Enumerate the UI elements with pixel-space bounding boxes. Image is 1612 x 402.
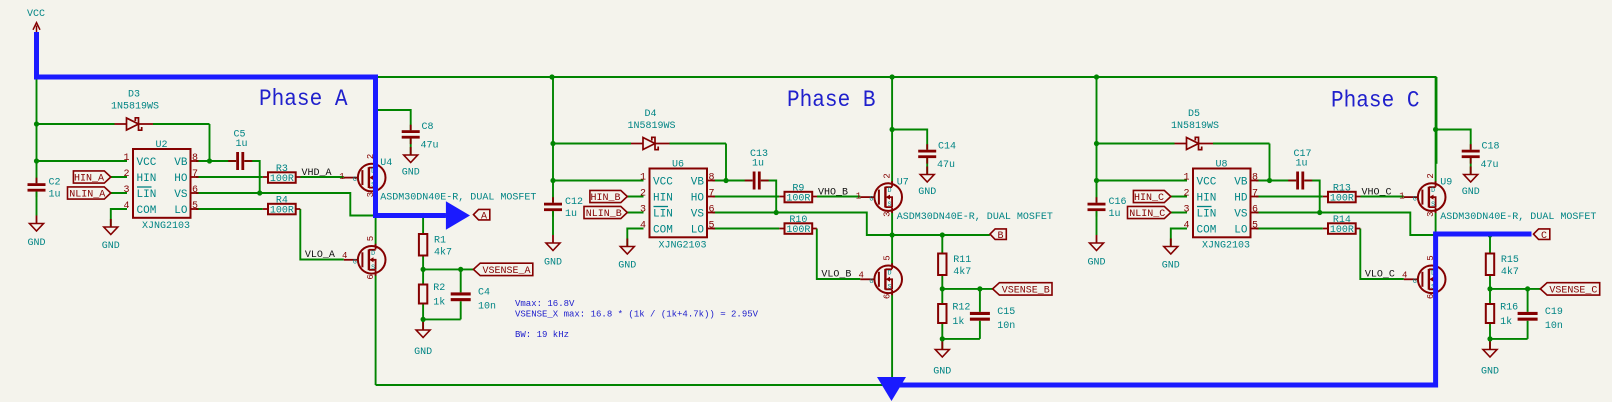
svg-text:GND: GND <box>102 241 120 252</box>
wire <box>1489 235 1491 254</box>
svg-text:1u: 1u <box>49 190 61 201</box>
IC U6 XJNG2103 <box>640 160 715 252</box>
IC U2 XJNG2103 <box>123 140 198 232</box>
svg-text:D: D <box>1431 187 1435 194</box>
svg-text:D: D <box>371 250 375 257</box>
ground <box>918 167 936 199</box>
wire <box>1436 130 1471 150</box>
junction <box>257 190 262 195</box>
svg-text:1: 1 <box>123 153 129 164</box>
svg-text:8: 8 <box>1252 173 1258 184</box>
ground <box>618 239 636 272</box>
mosfet U9 low side <box>1402 255 1446 299</box>
svg-text:5: 5 <box>192 201 198 212</box>
wire <box>1360 229 1404 280</box>
resistor R9 100R <box>779 184 817 205</box>
svg-text:ASDM30DN40E-R, DUAL MOSFET: ASDM30DN40E-R, DUAL MOSFET <box>897 212 1053 223</box>
wire <box>376 110 411 130</box>
resistor R1 4k7 <box>419 234 452 258</box>
junction <box>549 74 554 79</box>
junction <box>940 286 945 291</box>
svg-text:VCC: VCC <box>27 9 45 20</box>
svg-text:VCC: VCC <box>653 177 673 189</box>
svg-text:LIN: LIN <box>653 209 673 221</box>
wire <box>1435 77 1437 183</box>
wire <box>1256 180 1296 182</box>
svg-text:G: G <box>1413 196 1417 203</box>
svg-text:GND: GND <box>618 261 636 272</box>
svg-text:1k: 1k <box>952 316 964 328</box>
wire switch node <box>376 215 449 217</box>
wire <box>1256 213 1436 236</box>
wire <box>196 160 236 162</box>
svg-text:VS: VS <box>174 189 188 201</box>
svg-text:1: 1 <box>1183 173 1189 184</box>
svg-text:C18: C18 <box>1482 142 1500 153</box>
wire <box>423 268 473 270</box>
svg-text:GND: GND <box>402 168 420 179</box>
svg-text:Phase A: Phase A <box>259 86 348 112</box>
svg-text:C14: C14 <box>938 142 956 153</box>
svg-text:Phase B: Phase B <box>787 87 876 113</box>
junction <box>1094 178 1099 183</box>
svg-text:C15: C15 <box>997 307 1015 318</box>
svg-text:3: 3 <box>882 211 892 216</box>
junction <box>1267 178 1272 183</box>
capacitor C8 47u bulk <box>402 122 439 152</box>
svg-text:1: 1 <box>640 173 646 184</box>
ground <box>544 235 562 269</box>
svg-text:LO: LO <box>174 205 188 217</box>
svg-text:COM: COM <box>653 225 673 237</box>
svg-text:LO: LO <box>1234 225 1248 237</box>
svg-text:HIN_C: HIN_C <box>1134 193 1164 204</box>
svg-text:VSENSE_A: VSENSE_A <box>482 266 530 277</box>
wire GND return bus <box>376 384 1436 386</box>
svg-text:5: 5 <box>709 221 715 232</box>
svg-text:U4: U4 <box>380 158 392 169</box>
svg-text:GND: GND <box>1162 261 1180 272</box>
wire <box>761 181 776 213</box>
wire <box>423 304 461 331</box>
output flag B <box>990 229 1006 242</box>
svg-text:ASDM30DN40E-R, DUAL MOSFET: ASDM30DN40E-R, DUAL MOSFET <box>1440 212 1596 223</box>
wire <box>111 209 127 227</box>
wire <box>817 196 860 198</box>
wire <box>627 196 643 198</box>
mosfet U7 low side <box>858 255 902 299</box>
svg-text:U8: U8 <box>1215 160 1227 171</box>
svg-text:6: 6 <box>192 185 198 196</box>
svg-text:ASDM30DN40E-R, DUAL MOSFET: ASDM30DN40E-R, DUAL MOSFET <box>380 193 536 204</box>
svg-text:VS: VS <box>1234 209 1248 221</box>
wire <box>1490 323 1528 350</box>
wire <box>111 192 127 194</box>
wire <box>892 130 927 150</box>
wire <box>891 211 893 266</box>
wire <box>553 144 726 181</box>
svg-text:LO: LO <box>691 225 705 237</box>
wire switch node <box>892 234 990 236</box>
svg-text:100R: 100R <box>1330 225 1354 236</box>
wire <box>1305 181 1320 213</box>
svg-text:1N5819WS: 1N5819WS <box>111 102 159 113</box>
capacitor C15 10n <box>970 307 1015 332</box>
svg-text:U6: U6 <box>672 160 684 171</box>
capacitor C17 1u bootstrap <box>1288 149 1312 190</box>
wire <box>553 180 644 182</box>
wire <box>941 235 943 254</box>
svg-text:D: D <box>888 187 892 194</box>
resistor R10 100R <box>779 215 817 236</box>
junction <box>977 286 982 291</box>
junction <box>940 336 945 341</box>
svg-text:U9: U9 <box>1440 177 1452 188</box>
wire <box>196 176 263 178</box>
svg-text:1: 1 <box>856 192 861 202</box>
junction <box>1433 127 1438 132</box>
svg-text:D5: D5 <box>1188 109 1200 120</box>
svg-text:100R: 100R <box>270 174 294 185</box>
wire <box>942 288 992 290</box>
svg-text:S: S <box>888 201 892 208</box>
resistor R2 1k <box>419 283 445 309</box>
ground <box>414 322 432 358</box>
wire <box>1470 158 1472 175</box>
wire <box>891 293 893 385</box>
svg-text:1N5819WS: 1N5819WS <box>1171 121 1219 132</box>
wire <box>1489 275 1491 304</box>
svg-text:VSENSE_C: VSENSE_C <box>1549 286 1597 297</box>
svg-text:6: 6 <box>1252 205 1258 216</box>
svg-text:10n: 10n <box>478 301 496 312</box>
svg-text:100R: 100R <box>270 206 294 217</box>
ground <box>102 219 120 252</box>
junction <box>890 127 895 132</box>
svg-text:VB: VB <box>1234 177 1248 189</box>
global label HIN_A <box>73 171 110 185</box>
svg-text:47u: 47u <box>421 141 439 152</box>
wire <box>37 124 210 161</box>
svg-text:XJNG2103: XJNG2103 <box>142 221 190 232</box>
junction <box>1094 74 1099 79</box>
resistor R16 1k <box>1486 302 1518 328</box>
capacitor C13 1u bootstrap <box>745 149 769 190</box>
wire <box>891 77 893 183</box>
wire switch node <box>1436 234 1530 236</box>
junction <box>550 178 555 183</box>
resistor R14 100R <box>1323 215 1361 236</box>
svg-text:G: G <box>1413 278 1417 285</box>
resistor R15 4k7 <box>1486 254 1519 278</box>
svg-text:NLIN_A: NLIN_A <box>69 190 105 201</box>
global label VSENSE_B <box>993 283 1052 297</box>
svg-text:1N5819WS: 1N5819WS <box>627 121 675 132</box>
svg-text:LIN: LIN <box>1197 209 1217 221</box>
junction <box>940 232 945 237</box>
junction <box>34 158 39 163</box>
svg-text:BW: 19 kHz: BW: 19 kHz <box>515 330 569 340</box>
wire <box>713 180 753 182</box>
wire <box>713 213 893 236</box>
svg-text:XJNG2103: XJNG2103 <box>658 241 706 252</box>
svg-text:5: 5 <box>1252 221 1258 232</box>
diode D4 1N5819WS <box>627 109 675 150</box>
global label HIN_C <box>1133 190 1170 204</box>
svg-text:5: 5 <box>882 255 892 260</box>
svg-text:VB: VB <box>174 157 188 169</box>
svg-text:1u: 1u <box>752 159 764 170</box>
svg-text:S: S <box>371 264 375 271</box>
mosfet U4 high side (ASDM30DN40E-R) <box>339 154 536 204</box>
svg-text:C2: C2 <box>49 178 61 189</box>
wire <box>1171 196 1187 198</box>
svg-text:HD: HD <box>1234 193 1248 205</box>
svg-text:D: D <box>888 269 892 276</box>
svg-text:C: C <box>1541 231 1547 242</box>
global label NLIN_B <box>584 206 627 220</box>
svg-text:VHO_C: VHO_C <box>1362 188 1392 199</box>
capacitor C18 47u bulk <box>1462 142 1500 172</box>
svg-text:U2: U2 <box>155 140 167 151</box>
svg-text:1k: 1k <box>1500 316 1512 328</box>
junction <box>458 267 463 272</box>
svg-text:10n: 10n <box>997 321 1015 332</box>
mosfet U7 high side (ASDM30DN40E-R) <box>856 173 1053 223</box>
junction <box>890 232 895 237</box>
mosfet U9 high side (ASDM30DN40E-R) <box>1399 173 1596 223</box>
capacitor C14 47u bulk <box>918 142 956 172</box>
ground <box>402 147 420 179</box>
svg-text:GND: GND <box>27 238 45 249</box>
svg-text:GND: GND <box>1481 367 1499 378</box>
diode D5 1N5819WS <box>1171 109 1219 150</box>
svg-text:HIN_A: HIN_A <box>74 174 104 185</box>
svg-text:VCC: VCC <box>1197 177 1217 189</box>
wire <box>410 138 412 155</box>
junction <box>1487 336 1492 341</box>
wire <box>301 176 344 178</box>
junction <box>1094 141 1099 146</box>
svg-text:R16: R16 <box>1500 302 1518 313</box>
junction <box>34 121 39 126</box>
svg-text:G: G <box>869 278 873 285</box>
output flag A <box>474 209 490 222</box>
svg-text:1: 1 <box>339 172 344 182</box>
svg-text:G: G <box>869 196 873 203</box>
wire <box>111 176 127 178</box>
svg-text:C8: C8 <box>422 122 434 133</box>
wire <box>300 209 344 260</box>
svg-text:100R: 100R <box>786 225 810 236</box>
svg-text:VCC: VCC <box>137 157 157 169</box>
wire <box>979 289 981 339</box>
resistor R12 1k <box>938 302 970 328</box>
junction <box>1487 286 1492 291</box>
svg-text:VLO_C: VLO_C <box>1365 269 1395 280</box>
svg-text:HIN: HIN <box>653 193 673 205</box>
svg-text:4: 4 <box>123 201 129 212</box>
svg-text:HIN: HIN <box>1197 193 1217 205</box>
wire <box>196 208 263 210</box>
svg-text:8: 8 <box>192 153 198 164</box>
svg-text:VLO_B: VLO_B <box>821 269 851 280</box>
IC U8 XJNG2103 <box>1183 160 1258 252</box>
svg-text:4: 4 <box>640 221 646 232</box>
svg-text:LIN: LIN <box>137 189 157 201</box>
junction <box>550 141 555 146</box>
junction <box>207 158 212 163</box>
global label HIN_B <box>590 190 627 204</box>
wire <box>1096 77 1098 203</box>
wire <box>422 256 424 285</box>
svg-text:GND: GND <box>918 187 936 198</box>
mosfet U4 low side <box>342 236 386 280</box>
resistor R11 4k7 <box>938 254 971 278</box>
svg-text:2: 2 <box>1183 189 1189 200</box>
svg-text:HO: HO <box>691 193 705 205</box>
svg-text:1u: 1u <box>1296 159 1308 170</box>
svg-text:HIN_B: HIN_B <box>590 193 620 204</box>
svg-text:VSENSE_X max: 16.8 * (1k / (1k: VSENSE_X max: 16.8 * (1k / (1k+4.7k)) ≈ … <box>515 310 759 320</box>
wire <box>36 192 38 216</box>
svg-text:C4: C4 <box>478 288 490 299</box>
svg-text:VLO_A: VLO_A <box>305 250 335 261</box>
junction <box>421 213 426 218</box>
ground <box>27 216 45 250</box>
wire <box>245 161 260 193</box>
svg-text:100R: 100R <box>1330 194 1354 205</box>
junction <box>1433 232 1438 237</box>
svg-text:6: 6 <box>882 294 892 299</box>
wire <box>1527 289 1529 339</box>
global label NLIN_A <box>68 187 111 201</box>
capacitor C5 1u bootstrap <box>228 130 252 171</box>
svg-text:R12: R12 <box>952 302 970 313</box>
resistor R3 100R <box>263 164 301 185</box>
resistor R13 100R <box>1323 184 1361 205</box>
svg-text:1k: 1k <box>433 297 445 309</box>
wire <box>627 212 643 214</box>
wire <box>37 160 128 162</box>
svg-text:R2: R2 <box>433 283 445 294</box>
global label VSENSE_C <box>1540 283 1599 297</box>
svg-text:4k7: 4k7 <box>1501 266 1519 278</box>
wire <box>422 216 424 235</box>
svg-text:C12: C12 <box>565 197 583 208</box>
svg-text:2: 2 <box>640 189 646 200</box>
wire <box>713 228 780 230</box>
wire <box>1256 196 1323 198</box>
svg-text:COM: COM <box>137 205 157 217</box>
svg-text:1: 1 <box>1399 192 1404 202</box>
wire <box>552 77 554 203</box>
svg-text:D4: D4 <box>644 109 656 120</box>
svg-text:GND: GND <box>933 367 951 378</box>
ground <box>1087 235 1105 269</box>
junction <box>723 178 728 183</box>
svg-text:2: 2 <box>882 173 892 178</box>
capacitor C4 10n <box>451 288 496 313</box>
wire <box>713 196 780 198</box>
wire <box>1435 211 1437 266</box>
capacitor C16 1u <box>1088 197 1127 220</box>
svg-text:47u: 47u <box>937 160 955 171</box>
svg-text:7: 7 <box>709 189 715 200</box>
svg-text:3: 3 <box>1183 205 1189 216</box>
svg-text:3: 3 <box>640 205 646 216</box>
svg-text:VSENSE_B: VSENSE_B <box>1002 286 1050 297</box>
svg-text:G: G <box>353 258 357 265</box>
wire VCC top rail <box>378 76 1437 78</box>
svg-text:47u: 47u <box>1481 160 1499 171</box>
svg-text:5: 5 <box>366 236 376 241</box>
junction <box>1487 232 1492 237</box>
svg-text:4: 4 <box>858 270 863 280</box>
output flag C <box>1534 229 1550 242</box>
junction <box>1525 286 1530 291</box>
svg-text:VS: VS <box>691 209 705 221</box>
global label NLIN_C <box>1128 206 1171 220</box>
svg-text:3: 3 <box>123 185 129 196</box>
svg-text:VHD_A: VHD_A <box>302 168 332 179</box>
junction <box>421 267 426 272</box>
svg-text:NLIN_B: NLIN_B <box>586 209 622 220</box>
svg-text:1u: 1u <box>236 139 248 150</box>
svg-text:S: S <box>1431 201 1435 208</box>
svg-text:4: 4 <box>1183 221 1189 232</box>
wire <box>1256 228 1323 230</box>
wire <box>460 269 462 319</box>
wire <box>1171 229 1187 247</box>
ground <box>1462 167 1480 199</box>
wire <box>1436 77 1438 164</box>
svg-text:7: 7 <box>192 169 198 180</box>
wire <box>627 229 643 247</box>
svg-text:2: 2 <box>123 169 129 180</box>
power flag VCC <box>27 9 45 32</box>
svg-text:HIN: HIN <box>137 173 157 185</box>
wire <box>1097 180 1188 182</box>
svg-text:D3: D3 <box>128 90 140 101</box>
svg-text:6: 6 <box>366 274 376 279</box>
svg-text:R1: R1 <box>434 236 446 247</box>
capacitor C2 1u <box>28 178 61 201</box>
svg-text:A: A <box>481 211 487 222</box>
svg-text:GND: GND <box>1087 258 1105 269</box>
capacitor C12 1u <box>544 197 583 220</box>
svg-text:R11: R11 <box>953 255 971 266</box>
junction <box>373 107 378 112</box>
svg-text:6: 6 <box>709 205 715 216</box>
svg-text:VHO_B: VHO_B <box>818 188 848 199</box>
svg-text:8: 8 <box>709 173 715 184</box>
svg-text:4k7: 4k7 <box>953 266 971 278</box>
svg-text:COM: COM <box>1197 225 1217 237</box>
wire <box>1171 212 1187 214</box>
wire <box>196 193 376 216</box>
svg-text:B: B <box>997 231 1003 242</box>
svg-text:G: G <box>353 176 357 183</box>
wire <box>1361 196 1404 198</box>
wire <box>375 191 377 246</box>
junction <box>421 317 426 322</box>
junction <box>1317 210 1322 215</box>
junction <box>373 213 378 218</box>
svg-text:100R: 100R <box>786 194 810 205</box>
junction <box>774 210 779 215</box>
svg-text:R15: R15 <box>1501 255 1519 266</box>
